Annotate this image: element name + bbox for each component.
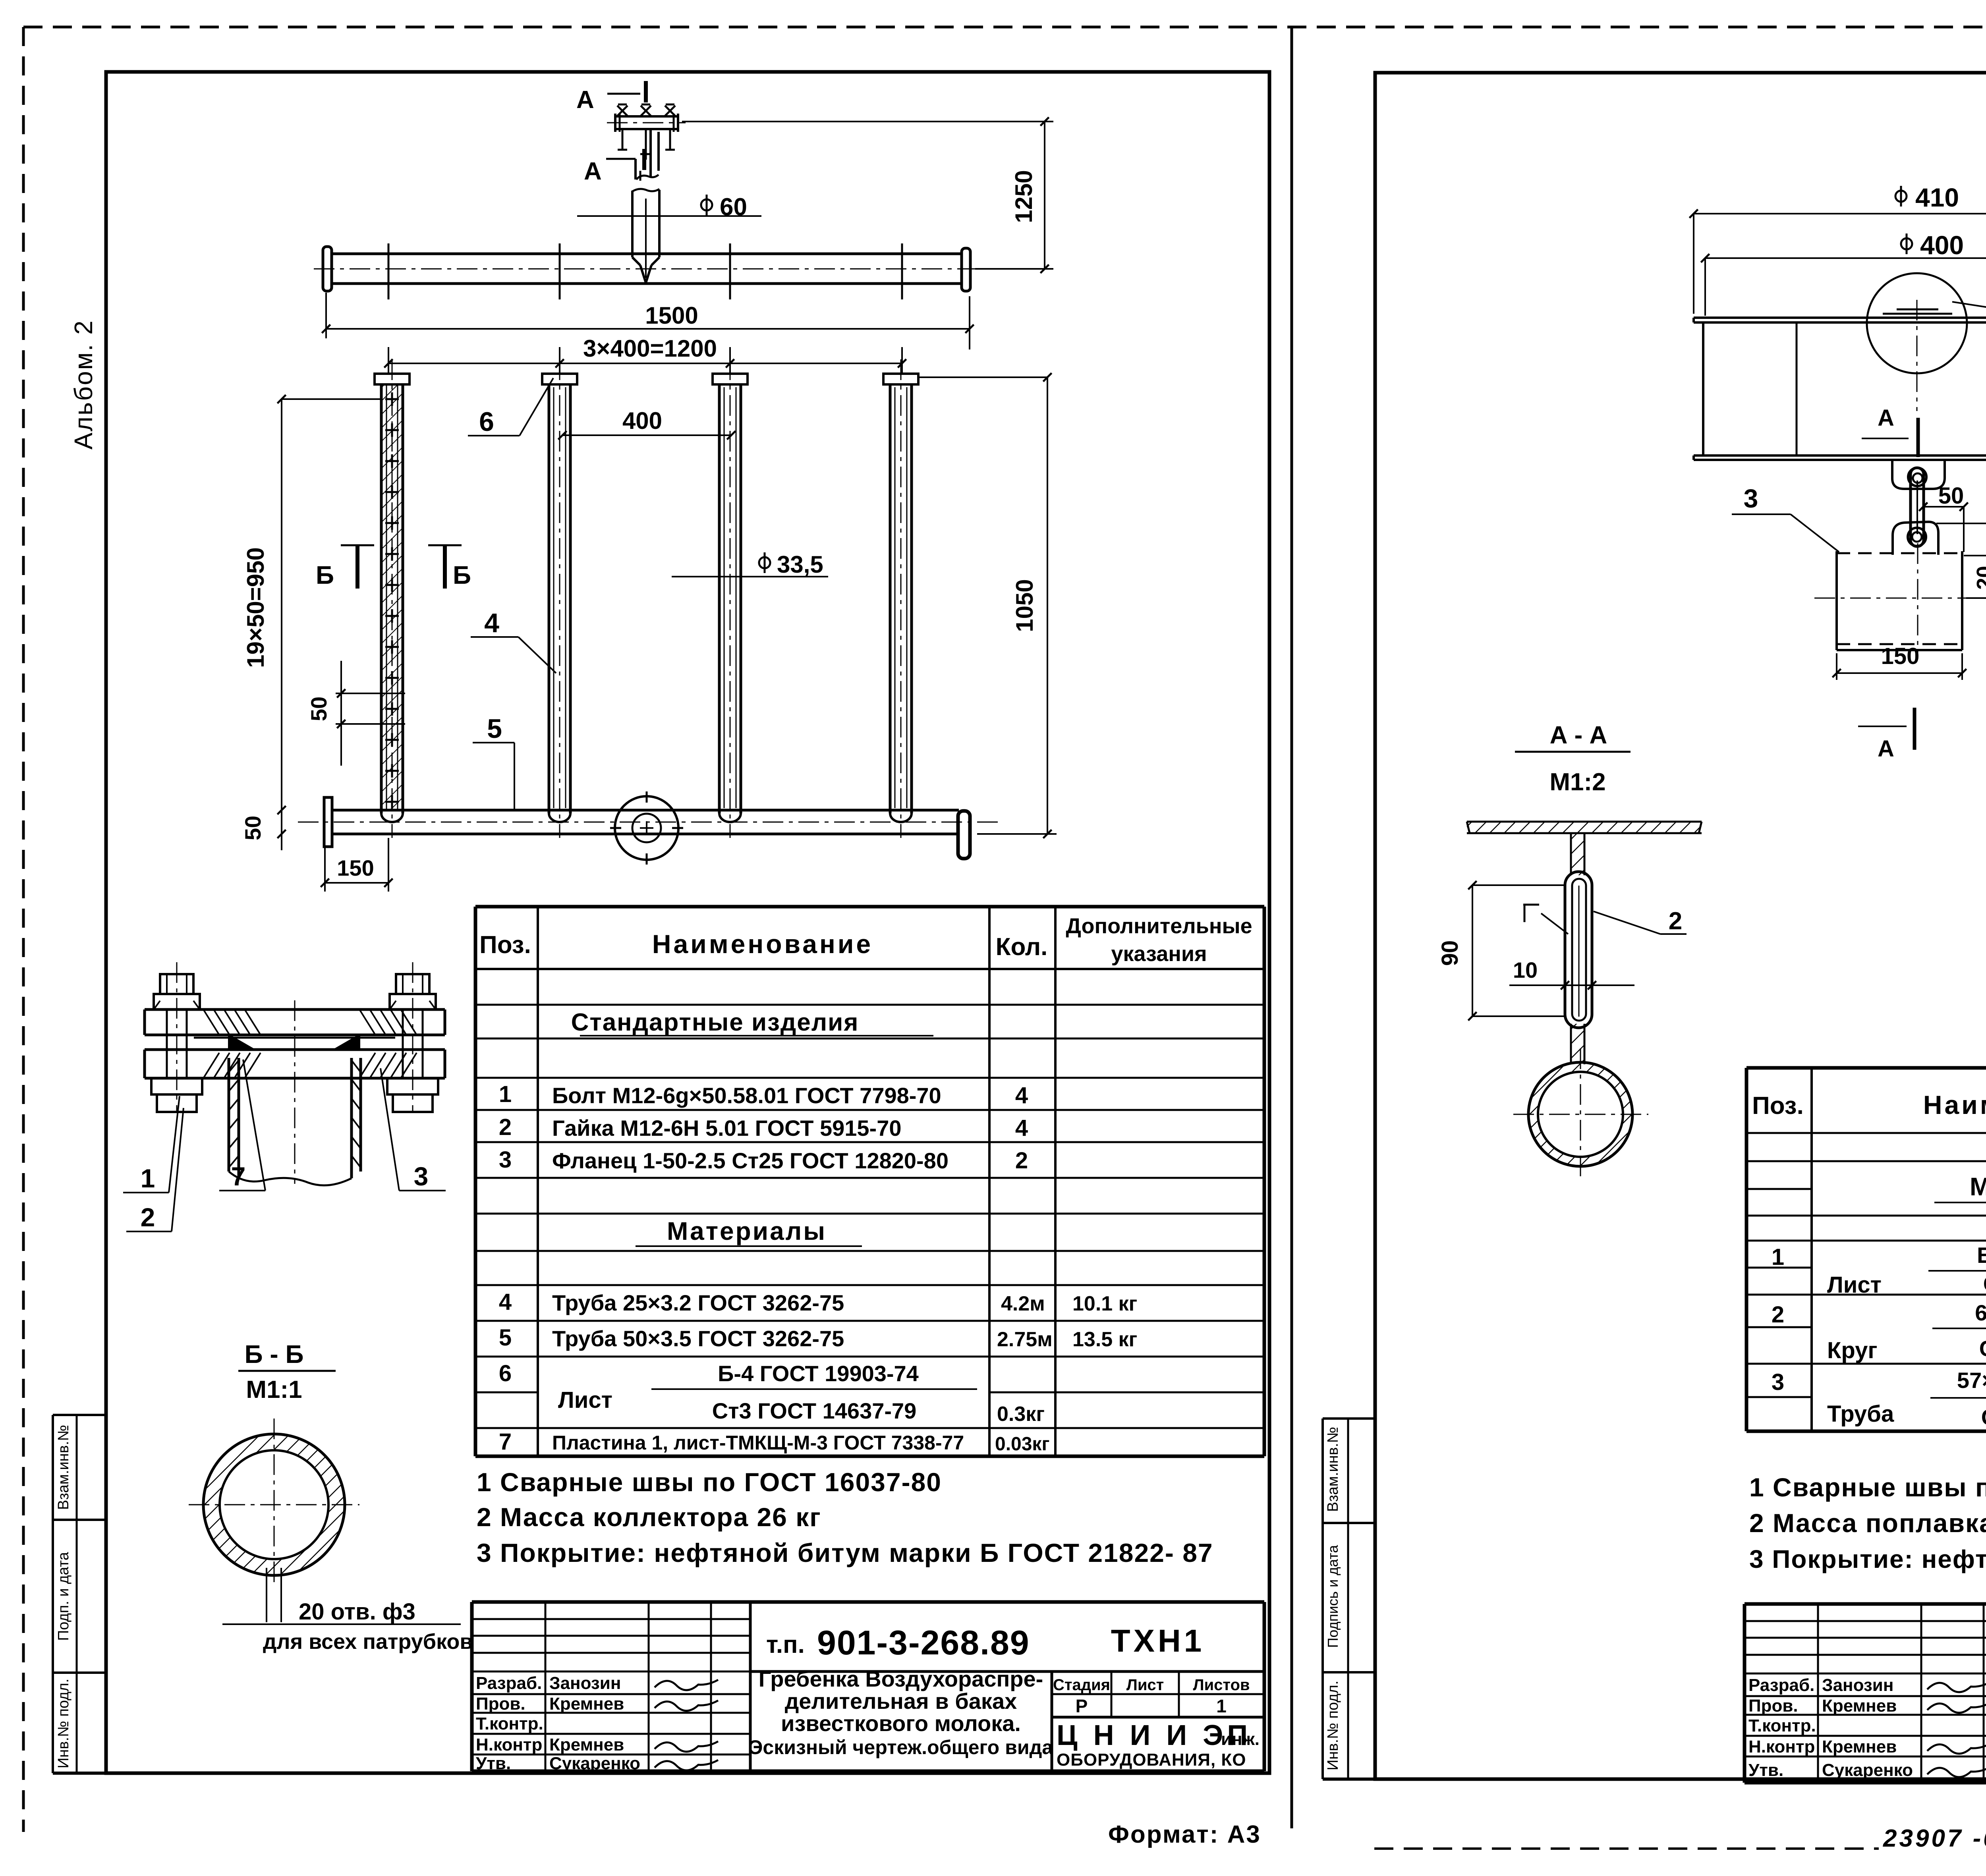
svg-text:400: 400 (622, 407, 662, 434)
svg-text:Сукаренко: Сукаренко (1822, 1760, 1913, 1780)
svg-text:20 отв. ф3: 20 отв. ф3 (299, 1599, 415, 1625)
svg-text:Занозин: Занозин (1822, 1675, 1893, 1695)
svg-text:400: 400 (1920, 230, 1964, 260)
svg-text:33,5: 33,5 (777, 551, 823, 578)
svg-text:Лист: Лист (1126, 1676, 1164, 1694)
svg-text:ОБОРУДОВАНИЯ, КО: ОБОРУДОВАНИЯ, КО (1057, 1750, 1246, 1770)
svg-text:Разраб.: Разраб. (476, 1673, 542, 1693)
svg-text:Взам.инв.№: Взам.инв.№ (1325, 1427, 1341, 1512)
svg-text:Т.контр.: Т.контр. (1748, 1716, 1816, 1735)
svg-text:Эскизный чертеж.общего вида: Эскизный чертеж.общего вида (749, 1736, 1053, 1758)
svg-text:известкового молока.: известкового молока. (781, 1711, 1021, 1736)
svg-text:Занозин: Занозин (549, 1673, 621, 1693)
svg-text:М1:2: М1:2 (1549, 768, 1605, 796)
svg-text:Ст 3 ГОСТ 8731- 74: Ст 3 ГОСТ 8731- 74 (1979, 1336, 1986, 1361)
svg-text:Подпись и дата: Подпись и дата (1325, 1545, 1341, 1648)
svg-text:Кремнев: Кремнев (549, 1735, 624, 1754)
svg-text:57×3 ГОСТ 8732- 78: 57×3 ГОСТ 8732- 78 (1957, 1368, 1986, 1393)
svg-text:для всех патрубков: для всех патрубков (263, 1630, 473, 1654)
svg-text:Материалы: Материалы (1970, 1172, 1986, 1201)
svg-text:Пров.: Пров. (1748, 1696, 1798, 1716)
svg-text:4: 4 (1015, 1115, 1028, 1141)
svg-text:0.03кг: 0.03кг (995, 1434, 1049, 1455)
svg-text:Листов: Листов (1193, 1676, 1250, 1694)
svg-text:А: А (1878, 736, 1894, 762)
svg-text:3 Покрытие: нефтяной битум ма: 3 Покрытие: нефтяной битум марки Б ГОСТ … (477, 1538, 1213, 1567)
svg-text:Дополнительные: Дополнительные (1066, 914, 1252, 938)
svg-text:Лист: Лист (558, 1387, 612, 1413)
svg-text:7: 7 (231, 1162, 246, 1191)
svg-text:4: 4 (1015, 1083, 1028, 1108)
svg-text:1: 1 (1772, 1244, 1784, 1270)
svg-text:6: 6 (499, 1361, 512, 1386)
svg-text:Н.контр: Н.контр (1748, 1737, 1815, 1756)
svg-text:6: 6 (479, 407, 494, 437)
svg-text:указания: указания (1111, 942, 1207, 966)
svg-text:Стадия: Стадия (1053, 1676, 1110, 1694)
svg-text:410: 410 (1915, 183, 1959, 212)
svg-text:Взам.инв.№: Взам.инв.№ (55, 1425, 72, 1510)
svg-text:50: 50 (240, 816, 265, 840)
svg-text:150: 150 (1881, 643, 1920, 669)
svg-text:Сукаренко: Сукаренко (549, 1754, 640, 1773)
svg-text:А - А: А - А (1550, 722, 1607, 749)
svg-text:1050: 1050 (1011, 579, 1038, 632)
svg-text:Фланец 1-50-2.5 Ст25 ГОСТ 1282: Фланец 1-50-2.5 Ст25 ГОСТ 12820-80 (552, 1148, 949, 1173)
svg-text:1 Сварные швы по ГОСТ 16037-8: 1 Сварные швы по ГОСТ 16037-80 (477, 1467, 942, 1497)
svg-text:2: 2 (141, 1202, 155, 1232)
svg-text:4: 4 (484, 608, 499, 638)
svg-text:т.п.: т.п. (766, 1631, 805, 1658)
svg-text:М1:1: М1:1 (246, 1376, 302, 1403)
svg-text:Поз.: Поз. (1752, 1092, 1804, 1119)
svg-text:1: 1 (141, 1164, 155, 1193)
svg-text:Гайка М12-6Н 5.01 ГОСТ 5915-7: Гайка М12-6Н 5.01 ГОСТ 5915-70 (552, 1116, 901, 1141)
svg-text:1 Сварные швы по ГОСТ 5264-80: 1 Сварные швы по ГОСТ 5264-80 (1749, 1473, 1986, 1502)
svg-text:901-3-268.89: 901-3-268.89 (817, 1624, 1030, 1662)
svg-text:2 Масса поплавка 9, 2 кг: 2 Масса поплавка 9, 2 кг (1749, 1508, 1986, 1538)
svg-text:1500: 1500 (645, 302, 698, 329)
svg-text:23907 -02: 23907 -02 (1883, 1825, 1986, 1852)
svg-text:Б-2 ГОСТ 19903-74: Б-2 ГОСТ 19903-74 (1977, 1243, 1986, 1268)
svg-text:10.1 кг: 10.1 кг (1072, 1292, 1137, 1315)
svg-text:Разраб.: Разраб. (1748, 1675, 1814, 1695)
svg-text:1: 1 (499, 1081, 512, 1107)
svg-text:ТХН1: ТХН1 (1111, 1623, 1205, 1658)
svg-text:90: 90 (1437, 940, 1463, 966)
svg-text:Ст3 ГОСТ 16523-70: Ст3 ГОСТ 16523-70 (1983, 1271, 1986, 1296)
svg-text:Подп. и дата: Подп. и дата (55, 1552, 72, 1641)
svg-text:1: 1 (1216, 1696, 1227, 1716)
svg-text:Б - Б: Б - Б (245, 1340, 304, 1368)
svg-text:Труба 25×3.2 ГОСТ 3262-75: Труба 25×3.2 ГОСТ 3262-75 (552, 1290, 844, 1315)
svg-text:Кремнев: Кремнев (1822, 1737, 1897, 1756)
svg-text:4: 4 (499, 1289, 512, 1315)
svg-text:6 ГОСТ 2590-71: 6 ГОСТ 2590-71 (1975, 1300, 1986, 1325)
svg-text:делительная в баках: делительная в баках (785, 1689, 1017, 1714)
svg-text:3×400=1200: 3×400=1200 (583, 335, 717, 362)
svg-text:Альбом. 2: Альбом. 2 (69, 319, 98, 450)
svg-text:Т.контр.: Т.контр. (476, 1714, 543, 1733)
svg-text:Б: Б (453, 561, 471, 589)
svg-text:3 Покрытие: нефтяной битум ма: 3 Покрытие: нефтяной битум марки Б ГОСТ … (1749, 1545, 1986, 1573)
svg-text:Ст3 ГОСТ 14637-79: Ст3 ГОСТ 14637-79 (712, 1398, 917, 1423)
svg-text:4.2м: 4.2м (1001, 1292, 1045, 1315)
svg-text:Формат: А3: Формат: А3 (1108, 1821, 1261, 1848)
svg-text:Кремнев: Кремнев (549, 1694, 624, 1714)
svg-text:3: 3 (499, 1147, 512, 1173)
svg-text:А: А (584, 158, 602, 185)
svg-text:2: 2 (499, 1114, 512, 1140)
svg-text:Пров.: Пров. (476, 1694, 525, 1714)
svg-text:Гребенка Воздухораспре-: Гребенка Воздухораспре- (759, 1666, 1043, 1691)
svg-text:50: 50 (1938, 483, 1964, 509)
svg-text:Труба 50×3.5 ГОСТ 3262-75: Труба 50×3.5 ГОСТ 3262-75 (552, 1326, 844, 1351)
svg-text:2: 2 (1669, 907, 1682, 935)
svg-text:3: 3 (1744, 484, 1758, 513)
svg-text:Наименование: Наименование (1923, 1090, 1986, 1119)
svg-text:2 Масса коллектора 26 кг: 2 Масса коллектора 26 кг (477, 1502, 821, 1532)
svg-text:Инв.№ подл.: Инв.№ подл. (1325, 1681, 1341, 1770)
svg-text:20: 20 (1972, 566, 1986, 590)
svg-text:13.5 кг: 13.5 кг (1072, 1328, 1137, 1351)
svg-text:1250: 1250 (1010, 170, 1037, 223)
svg-text:50: 50 (306, 697, 331, 721)
svg-text:Ст 3 ГОСТ 8731- 74: Ст 3 ГОСТ 8731- 74 (1981, 1405, 1986, 1430)
svg-text:инж.: инж. (1221, 1729, 1260, 1749)
svg-text:Стандартные изделия: Стандартные изделия (571, 1009, 859, 1036)
svg-text:Кол.: Кол. (996, 933, 1048, 961)
svg-text:Круг: Круг (1827, 1338, 1877, 1363)
svg-text:Н.контр: Н.контр (476, 1735, 542, 1754)
svg-text:0.3кг: 0.3кг (997, 1403, 1045, 1426)
svg-text:Б: Б (316, 561, 334, 589)
svg-text:19×50=950: 19×50=950 (242, 547, 269, 668)
svg-text:Утв.: Утв. (476, 1754, 511, 1773)
svg-text:Пластина 1, лист-ТМКЩ-М-3 ГОСТ: Пластина 1, лист-ТМКЩ-М-3 ГОСТ 7338-77 (552, 1432, 964, 1454)
svg-text:Кремнев: Кремнев (1822, 1696, 1897, 1716)
svg-text:А: А (1878, 405, 1894, 431)
svg-text:Утв.: Утв. (1748, 1760, 1783, 1780)
svg-text:Лист: Лист (1827, 1272, 1882, 1298)
svg-text:150: 150 (337, 855, 374, 880)
svg-text:5: 5 (499, 1325, 512, 1351)
svg-text:Материалы: Материалы (667, 1217, 827, 1245)
svg-text:Болт М12-6g×50.58.01 ГОСТ 7798: Болт М12-6g×50.58.01 ГОСТ 7798-70 (552, 1083, 941, 1108)
svg-text:3: 3 (414, 1162, 429, 1191)
svg-text:Р: Р (1076, 1696, 1088, 1716)
svg-text:Наименование: Наименование (652, 929, 873, 959)
svg-text:2.75м: 2.75м (997, 1328, 1053, 1351)
svg-text:Поз.: Поз. (479, 931, 531, 959)
svg-text:Труба: Труба (1827, 1401, 1894, 1427)
svg-text:Инв.№ подл.: Инв.№ подл. (55, 1679, 72, 1768)
svg-text:3: 3 (1772, 1369, 1784, 1395)
svg-text:5: 5 (487, 714, 502, 744)
svg-text:7: 7 (499, 1429, 512, 1455)
svg-text:10: 10 (1513, 957, 1538, 982)
svg-text:Б-4 ГОСТ 19903-74: Б-4 ГОСТ 19903-74 (718, 1361, 919, 1386)
svg-text:2: 2 (1772, 1302, 1784, 1328)
svg-text:А: А (576, 86, 594, 114)
svg-text:2: 2 (1015, 1148, 1028, 1173)
